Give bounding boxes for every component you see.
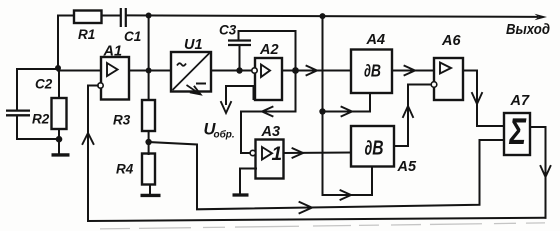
svg-text:Выход: Выход [506,21,550,38]
resistor R2 [58,69,60,98]
ground G1 [52,153,70,156]
wire divider tap to inner rail [149,140,504,209]
arrow left on A3 input wire [262,107,273,116]
wire A5 output up to A6 inverting input [394,85,431,147]
wire C2 bottom to ground node [17,116,59,140]
block A4 [351,50,392,94]
svg-text:A1: A1 [103,44,123,60]
wire A1 inv input from feedback [88,86,98,222]
wire R1C1 feedback vertical [148,16,150,71]
wire R3 to R4 [148,131,150,154]
A1 inverting input circle [98,83,103,88]
op-amp A6 [434,58,463,100]
scan smudge bottom [100,223,545,229]
node R3/R4 divider dot [145,139,151,145]
op-amp A3 [256,140,284,179]
arrow right to A5 control [341,190,352,199]
wire bottom feedback rail [88,218,546,221]
arrow down A7 output [541,166,551,177]
svg-text:1: 1 [272,144,283,165]
wire top rail left segment [58,15,74,17]
wire A2 ref input Uobr [226,86,254,99]
svg-text:R2: R2 [32,112,50,127]
svg-text:R4: R4 [116,162,134,177]
svg-text:C1: C1 [124,29,141,44]
wire R1 to C1 [102,15,120,17]
svg-text:R1: R1 [78,27,95,42]
node AGC branch dot [319,108,325,114]
wire A7 output to bottom feedback rail [530,127,546,218]
arrow right on inner rail [300,202,313,213]
wire U1 to A2 [211,70,252,72]
node ground junction dot [56,136,63,143]
arrow right A4 output [405,66,416,75]
U1 conversion arrow [187,85,200,94]
capacitor C1 [121,8,126,27]
wire A1 output [129,70,171,72]
A3 input circle [250,150,255,155]
op-amp A1 [101,57,129,100]
block A5 [351,126,394,167]
op-amp A2 [255,58,282,100]
converter U1 [171,52,211,92]
svg-text:Σ: Σ [509,110,527,152]
arrow up on feedback wire [83,133,94,144]
wire A3 second input to ground [240,169,256,194]
wire left vertical x58 [57,16,59,71]
svg-text:A5: A5 [397,159,417,175]
wire A1 input row [58,70,101,72]
wire A6 output [463,71,504,127]
svg-text:R3: R3 [113,113,131,128]
arrow right A2 output [307,66,318,75]
arrow up A5 output [403,106,413,117]
wire C2 branch left [17,69,58,110]
A6 inverting input circle [431,82,437,88]
node A2 output dot [292,67,299,74]
arrow right to A4 control [342,107,353,116]
svg-text:C2: C2 [35,77,53,92]
svg-text:A2: A2 [259,42,279,58]
wire A2 out to A3 input loop [241,71,296,154]
node A1 output dot [146,68,152,74]
wire AGC rail vertical x322 [323,16,373,195]
summator A7 [504,113,530,155]
svg-text:A7: A7 [510,93,530,109]
svg-text:A3: A3 [261,124,281,140]
arrow down Uobr [225,86,227,104]
ground G2 [141,194,161,197]
svg-text:∂В: ∂В [365,138,384,160]
svg-text:обр.: обр. [214,129,235,141]
resistor R4 [142,154,155,185]
resistor R3 [142,100,155,131]
svg-text:A4: A4 [366,32,386,48]
svg-text:A6: A6 [441,33,461,49]
wire R2 bottom [58,129,60,154]
capacitor C2 [6,111,30,116]
wire C3 bottom [239,45,241,71]
A2 inverting input circle [252,68,257,73]
wire A3 output to A5 [284,152,352,155]
wire A4 output to A6 [392,70,434,72]
node dot top rail / AGC rail [320,13,326,19]
svg-text:C3: C3 [219,23,237,38]
ground G3 [233,193,249,196]
svg-text:U1: U1 [184,37,203,53]
arrow down A6 output [472,93,482,104]
wire A1 out node down to R3 [148,71,150,101]
node A1 input dot [55,65,61,71]
wire A2 output [282,70,351,72]
wire R4 to ground [149,185,151,194]
arrow right A3 output [293,148,304,157]
svg-text:∂В: ∂В [364,61,381,81]
capacitor C3 [228,41,251,46]
wire C3 top loop [239,31,296,71]
wire top rail main [127,15,537,17]
node dot top rail / A1 feedback [146,13,152,19]
wire AGC branch to A4 control [323,93,371,112]
resistor R1 [74,11,102,24]
node C3 tap dot [236,67,242,73]
output arrow Vyhod [535,14,548,20]
